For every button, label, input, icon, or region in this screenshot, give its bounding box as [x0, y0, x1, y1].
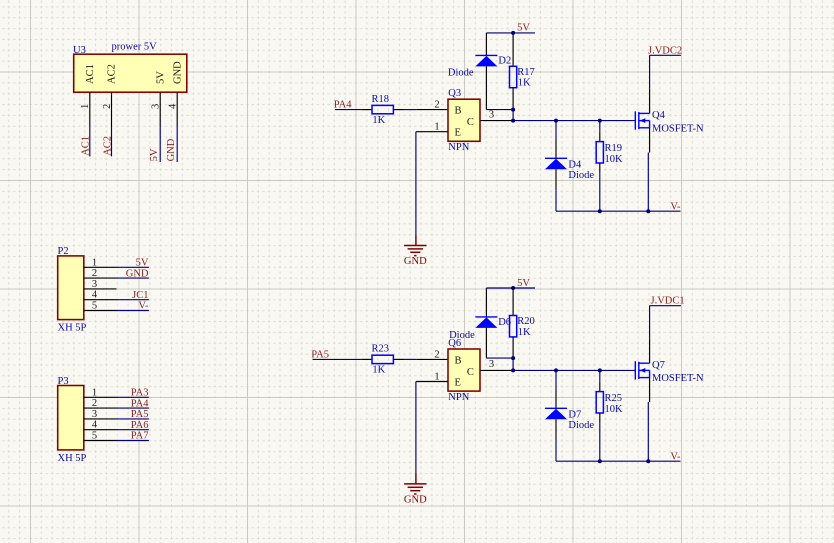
wire node to R19: [599, 121, 601, 132]
junction jog: [511, 356, 515, 360]
svg-text:GND: GND: [126, 268, 149, 279]
svg-text:XH 5P: XH 5P: [58, 453, 87, 464]
svg-text:J.VDC1: J.VDC1: [651, 296, 685, 307]
component U3 body: [74, 54, 187, 92]
svg-text:GND: GND: [173, 61, 184, 84]
svg-text:AC1: AC1: [85, 64, 96, 84]
R19 top pin: [599, 131, 601, 141]
wire net V-: [117, 310, 149, 312]
ground GND: [404, 484, 426, 494]
wire jog down to node row: [512, 358, 514, 370]
svg-text:R25: R25: [605, 393, 623, 404]
D7 anode pin: [555, 419, 557, 440]
R25 top pin: [599, 381, 601, 391]
wire jog to pullup bottom: [486, 109, 513, 111]
svg-text:1K: 1K: [372, 115, 385, 126]
junction node row / pullup: [511, 119, 515, 123]
wire net GND: [176, 126, 178, 162]
svg-text:R23: R23: [372, 344, 390, 355]
svg-text:Q4: Q4: [652, 110, 666, 121]
svg-text:E: E: [455, 128, 461, 139]
svg-text:1: 1: [92, 387, 97, 398]
wire down to GND: [415, 132, 417, 235]
svg-text:prower 5V: prower 5V: [112, 41, 158, 52]
wire pin 1 to GND run: [416, 131, 448, 133]
svg-text:3: 3: [92, 409, 97, 420]
P3 pin 4: [84, 429, 117, 431]
wire net 5V: [159, 126, 161, 162]
svg-text:4: 4: [92, 420, 98, 431]
junction node row / resistor branch: [598, 368, 602, 372]
junction 5V rail: [511, 286, 515, 290]
svg-text:C: C: [467, 117, 474, 128]
svg-text:4: 4: [92, 290, 98, 301]
svg-text:AC1: AC1: [81, 136, 92, 156]
svg-text:2: 2: [434, 100, 439, 111]
wire net AC2: [111, 126, 113, 156]
R19 bottom pin: [599, 163, 601, 174]
wire R23 to pin 2: [404, 358, 416, 360]
svg-text:AC2: AC2: [107, 64, 118, 84]
svg-text:PA6: PA6: [131, 420, 149, 431]
junction V- rail / resistor: [598, 459, 602, 463]
junction 5V rail: [511, 31, 515, 35]
svg-text:PA3: PA3: [131, 388, 149, 399]
svg-text:1K: 1K: [518, 327, 531, 338]
P2 pin 3: [84, 288, 117, 290]
transistor pin 2: [416, 358, 448, 360]
junction jog: [511, 108, 515, 112]
svg-text:3: 3: [489, 359, 494, 370]
svg-text:GND: GND: [166, 138, 177, 161]
MOSFET source pin: [649, 378, 651, 402]
wire net PA3: [117, 396, 149, 398]
P3 pin 5: [84, 440, 117, 442]
transistor Q6 body: [448, 349, 480, 391]
wire down to GND: [415, 382, 417, 474]
wire rail to R17: [512, 33, 514, 66]
P2 pin 4: [84, 299, 117, 301]
P2 pin 5: [84, 310, 117, 312]
wire rail to R20: [512, 288, 514, 316]
svg-text:R17: R17: [517, 67, 535, 78]
wire R19 to V- rail: [599, 174, 601, 212]
wire jog down to node row: [512, 110, 514, 121]
svg-text:3: 3: [489, 109, 494, 120]
svg-text:1K: 1K: [518, 78, 531, 89]
svg-text:MOSFET-N: MOSFET-N: [652, 373, 704, 384]
GND stem: [415, 473, 417, 484]
resistor R18: [372, 105, 393, 113]
D7 cathode pin: [555, 389, 557, 408]
svg-text:Diode: Diode: [449, 330, 475, 341]
svg-text:1: 1: [92, 257, 97, 268]
wire R25 to V- rail: [599, 424, 601, 462]
wire drain up: [649, 306, 651, 339]
svg-text:PA7: PA7: [131, 431, 149, 442]
svg-text:Q7: Q7: [652, 360, 665, 371]
R23 left pin: [361, 358, 372, 360]
diode D2: [475, 55, 497, 66]
MOSFET drain pin: [649, 89, 651, 114]
wire net GND: [117, 277, 149, 279]
svg-text:D2: D2: [498, 55, 511, 66]
wire node to D7: [555, 370, 557, 389]
junction V- rail / source: [646, 459, 650, 463]
wire D7 to V- rail: [555, 440, 557, 461]
svg-text:XH 5P: XH 5P: [58, 323, 87, 334]
U3 pin 1: [89, 92, 91, 126]
svg-text:5V: 5V: [517, 278, 530, 289]
wire collector node row: [513, 369, 635, 371]
svg-text:10K: 10K: [605, 404, 624, 415]
svg-text:Diode: Diode: [568, 420, 594, 431]
svg-text:NPN: NPN: [448, 392, 469, 403]
resistor R19: [596, 142, 603, 163]
junction V- rail / resistor: [598, 209, 602, 213]
wire rail to D6: [485, 288, 487, 317]
P3 pin 2: [84, 407, 117, 409]
svg-text:D7: D7: [568, 409, 581, 420]
wire net 5V: [117, 266, 149, 268]
connector P2 body: [58, 256, 84, 320]
svg-text:Diode: Diode: [568, 170, 594, 181]
svg-text:10K: 10K: [605, 154, 624, 165]
R18 right pin: [393, 109, 404, 111]
P3 pin 3: [84, 418, 117, 420]
resistor R25: [596, 392, 603, 413]
resistor R20: [510, 316, 517, 337]
svg-text:2: 2: [102, 104, 113, 109]
svg-text:NPN: NPN: [448, 142, 469, 153]
svg-text:JC1: JC1: [132, 290, 148, 301]
resistor R23: [372, 355, 393, 363]
junction node row / diode branch: [554, 119, 558, 123]
wire rail to D2: [485, 33, 487, 56]
wire V- rail: [556, 210, 681, 212]
svg-text:V-: V-: [138, 301, 149, 312]
junction V- rail / source: [646, 209, 650, 213]
wire jog to pullup bottom: [486, 357, 513, 359]
D4 cathode pin: [555, 139, 557, 158]
U3 pin 3: [159, 92, 161, 126]
wire 5V rail: [486, 287, 535, 289]
wire net PA7: [117, 440, 149, 442]
junction node row / diode branch: [554, 368, 558, 372]
wire 5V rail: [486, 32, 535, 34]
R23 right pin: [393, 358, 404, 360]
svg-text:1: 1: [434, 371, 439, 382]
svg-text:J.VDC2: J.VDC2: [648, 45, 682, 56]
svg-text:GND: GND: [404, 256, 427, 267]
U3 pin 2: [111, 92, 113, 126]
svg-text:1K: 1K: [372, 365, 385, 376]
wire node to D4: [555, 121, 557, 139]
junction node row / pullup: [511, 368, 515, 372]
svg-text:PA5: PA5: [131, 409, 149, 420]
wire PA5 to R23: [313, 358, 362, 360]
svg-text:4: 4: [168, 103, 179, 109]
ground GND: [404, 246, 426, 256]
GND stem: [415, 235, 417, 245]
wire source to V- rail: [647, 402, 649, 461]
diode D4: [545, 158, 567, 169]
svg-text:3: 3: [151, 104, 162, 109]
wire net JC1: [117, 299, 149, 301]
MOSFET Q4: [635, 111, 649, 129]
connector P3 body: [58, 386, 84, 450]
svg-text:Diode: Diode: [448, 67, 474, 78]
wire net PA4: [117, 407, 149, 409]
MOSFET drain pin: [649, 339, 651, 364]
wire collector node row: [513, 120, 635, 122]
resistor R17: [510, 66, 517, 87]
wire D6 anode down: [485, 328, 487, 358]
svg-text:PA4: PA4: [131, 398, 149, 409]
svg-text:C: C: [467, 367, 474, 378]
junction node row / resistor branch: [598, 119, 602, 123]
D4 anode pin: [555, 169, 557, 190]
svg-text:5V: 5V: [517, 23, 530, 34]
svg-text:Q3: Q3: [448, 88, 461, 99]
svg-text:V-: V-: [670, 202, 681, 213]
svg-text:2: 2: [92, 398, 97, 409]
svg-text:3: 3: [92, 279, 97, 290]
svg-text:V-: V-: [670, 452, 681, 463]
svg-text:B: B: [455, 106, 462, 117]
svg-text:B: B: [455, 355, 462, 366]
svg-text:R18: R18: [372, 94, 390, 105]
wire pin 1 to GND run: [416, 381, 448, 383]
svg-text:R19: R19: [605, 143, 623, 154]
diode D7: [545, 408, 567, 419]
svg-text:R20: R20: [517, 316, 535, 327]
svg-text:2: 2: [92, 268, 97, 279]
svg-text:AC2: AC2: [102, 136, 113, 156]
svg-text:2: 2: [434, 349, 439, 360]
wire D2 anode down: [485, 66, 487, 109]
svg-text:5V: 5V: [136, 258, 149, 269]
svg-text:5V: 5V: [156, 71, 167, 84]
P2 pin 1: [84, 266, 117, 268]
svg-text:1: 1: [80, 104, 91, 109]
svg-text:MOSFET-N: MOSFET-N: [652, 123, 704, 134]
wire R20 bottom: [512, 337, 514, 358]
svg-text:1: 1: [434, 122, 439, 133]
svg-text:GND: GND: [404, 495, 427, 506]
P3 pin 1: [84, 396, 117, 398]
svg-text:E: E: [455, 377, 461, 388]
wire source to V- rail: [647, 153, 649, 212]
wire PA4 to R18: [335, 109, 361, 111]
wire drain up: [649, 55, 651, 88]
wire R17 bottom: [512, 88, 514, 110]
wire node to R25: [599, 370, 601, 381]
svg-text:5: 5: [92, 301, 97, 312]
wire net AC1: [89, 126, 91, 156]
diode D6: [475, 317, 497, 328]
wire to VDC port: [650, 54, 681, 56]
wire net PA6: [117, 429, 149, 431]
transistor Q3 body: [448, 99, 480, 141]
svg-text:5V: 5V: [149, 148, 160, 161]
wire D4 to V- rail: [555, 190, 557, 211]
svg-text:5: 5: [92, 431, 97, 442]
MOSFET Q7: [635, 361, 649, 379]
R18 left pin: [361, 109, 372, 111]
transistor pin 3: [480, 369, 513, 371]
wire to VDC port: [650, 305, 681, 307]
svg-text:D4: D4: [568, 159, 582, 170]
transistor pin 2: [416, 109, 448, 111]
wire net PA5: [117, 418, 149, 420]
transistor pin 3: [480, 120, 513, 122]
P2 pin 2: [84, 277, 117, 279]
R25 bottom pin: [599, 413, 601, 424]
wire V- rail: [556, 460, 681, 462]
wire R18 to pin 2: [404, 109, 416, 111]
MOSFET source pin: [649, 128, 651, 153]
U3 pin 4: [176, 92, 178, 126]
